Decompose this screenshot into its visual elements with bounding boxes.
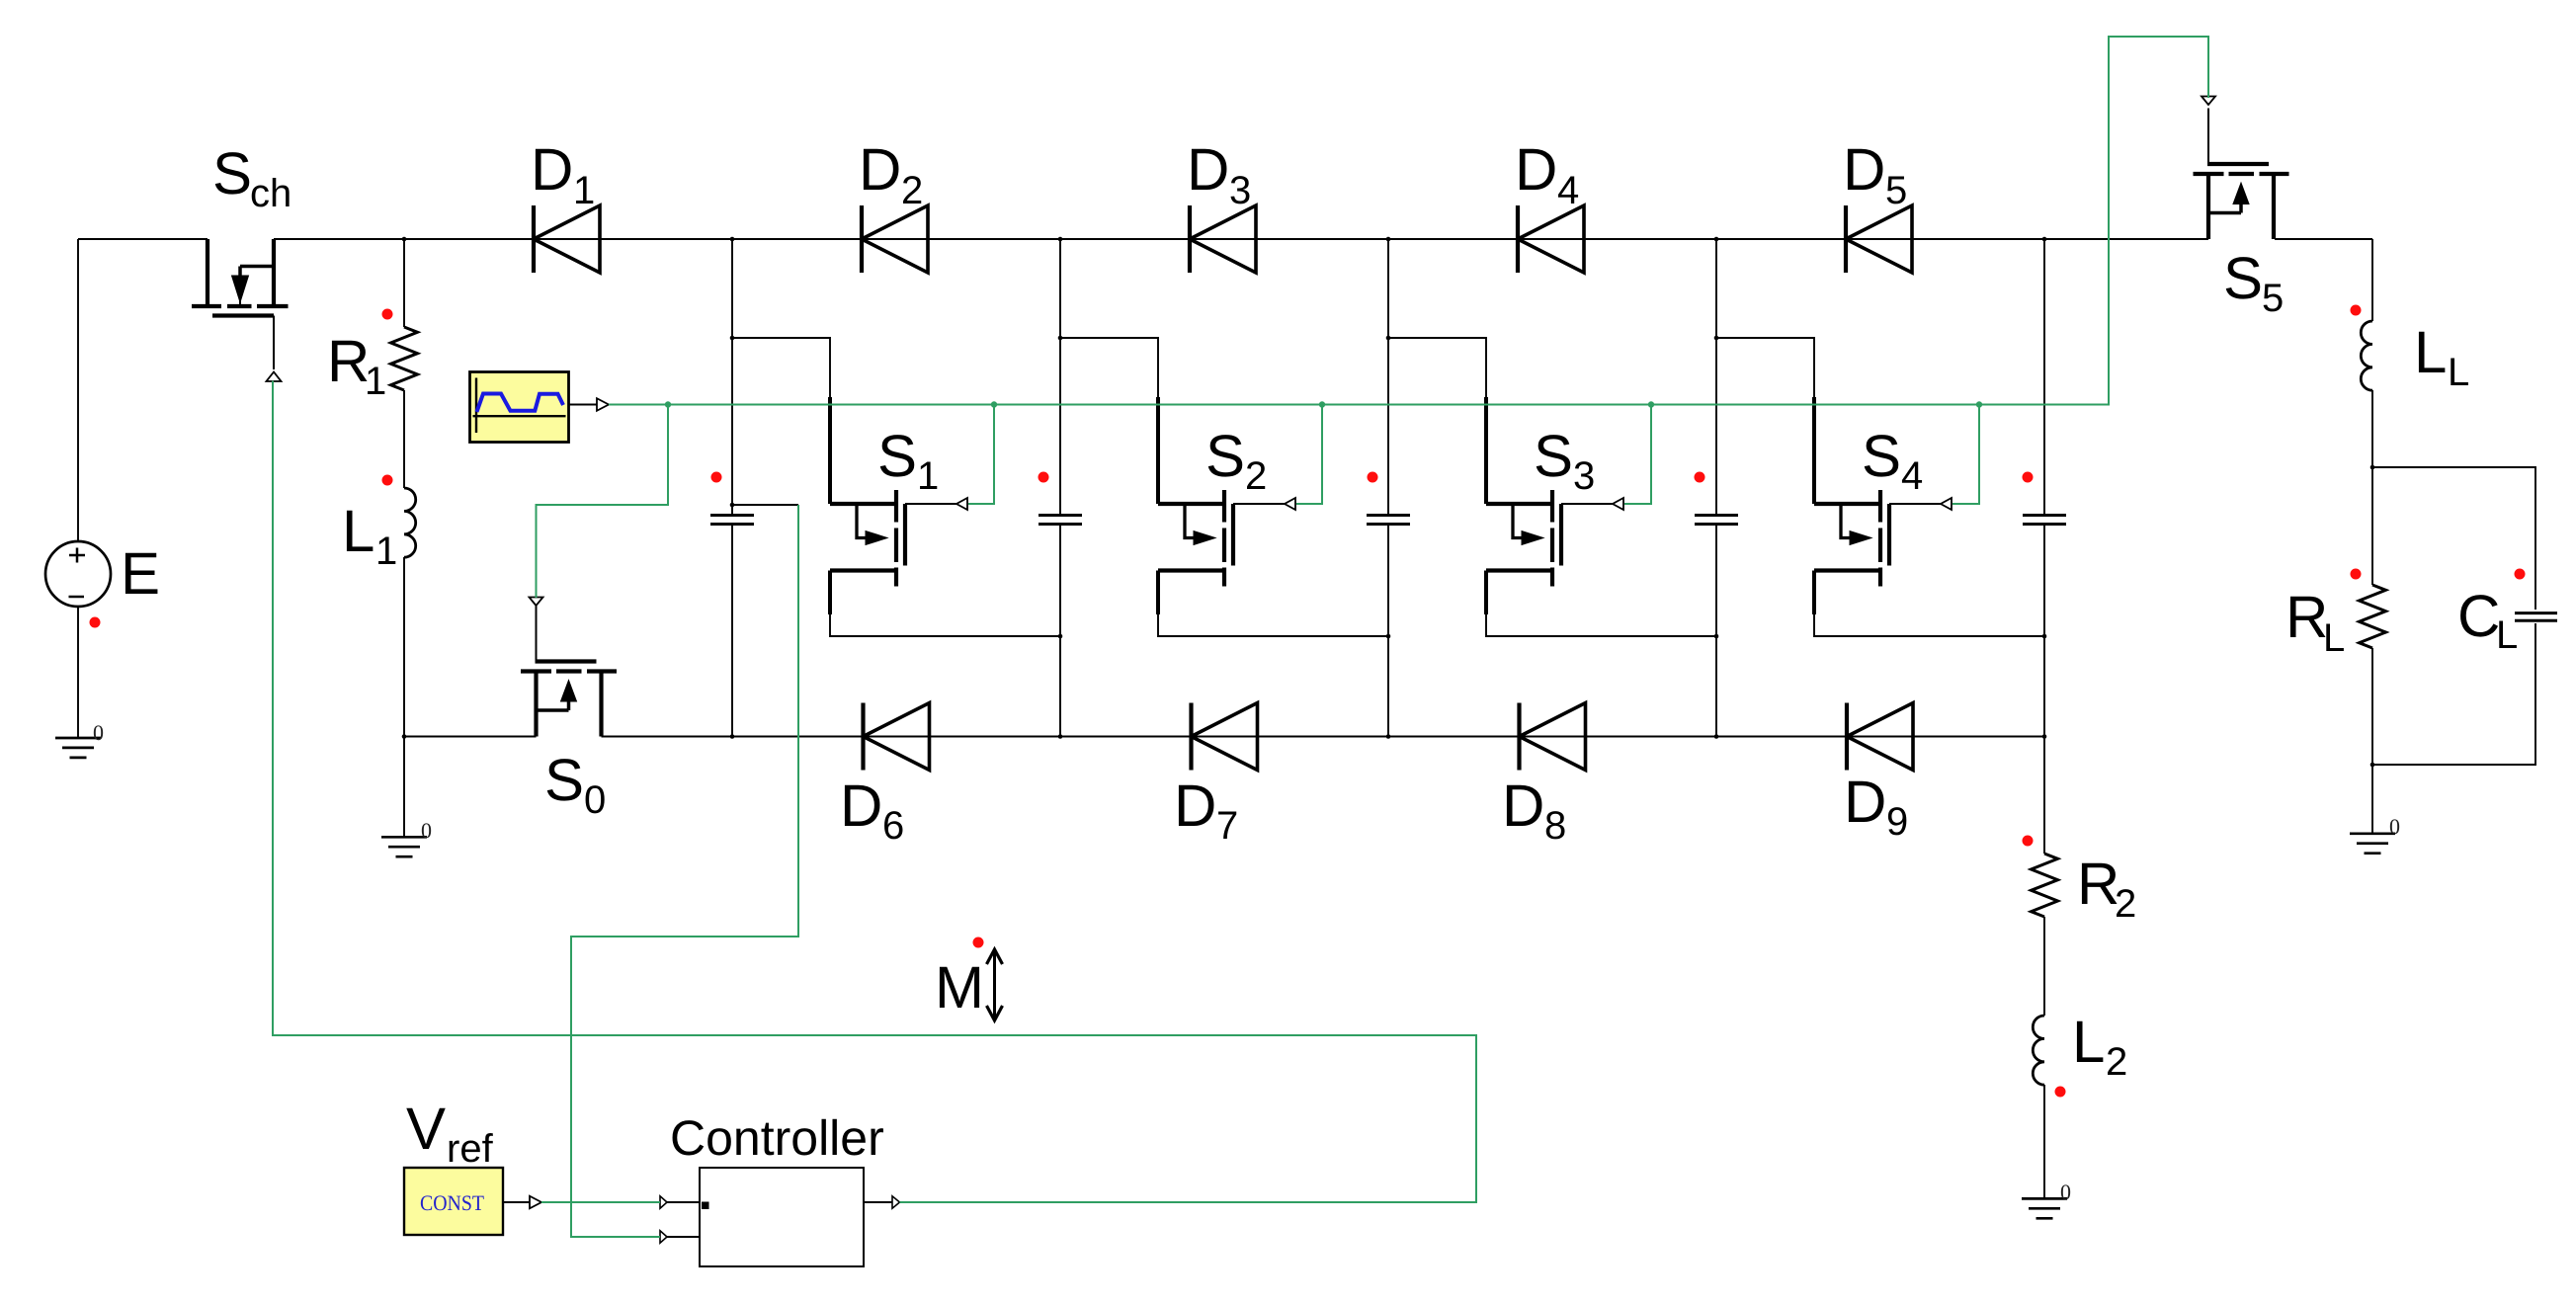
wire R1 to L1 bbox=[403, 390, 405, 488]
wire Vref to controller input 1 bbox=[541, 1201, 660, 1203]
wire bottom bus left to S0 drain bbox=[404, 736, 537, 738]
inductor L2 bbox=[2033, 1016, 2044, 1085]
junction node S1 source return bbox=[1058, 634, 1063, 639]
diode D1 bbox=[534, 205, 600, 273]
wire rail 1 lower bbox=[731, 525, 733, 737]
probe dot at C3 bbox=[1368, 472, 1378, 483]
svg-text:D: D bbox=[1502, 773, 1544, 839]
diode D9 bbox=[1847, 703, 1913, 771]
svg-text:S: S bbox=[1205, 423, 1245, 489]
gate port arrow of S5 bbox=[2202, 97, 2215, 106]
wire C1 sense stub bbox=[732, 504, 798, 506]
wire L1 to bottom bus bbox=[403, 557, 405, 737]
wire top bus left segment E to S_ch drain bbox=[78, 238, 208, 240]
resistor R2 bbox=[2032, 854, 2058, 917]
probe dot at C4 bbox=[1695, 472, 1705, 483]
svg-text:2: 2 bbox=[1245, 454, 1267, 498]
wire LL to node junction bbox=[2371, 390, 2373, 467]
probe dot above LL bbox=[2351, 305, 2362, 316]
ground 0 below E bbox=[55, 738, 101, 758]
wire rail 2 upper bbox=[1059, 239, 1061, 514]
svg-text:S: S bbox=[544, 747, 584, 813]
junction node bottom bus rail 3 bbox=[1386, 734, 1391, 739]
junction node load bottom bbox=[2370, 763, 2375, 768]
svg-text:2: 2 bbox=[901, 169, 923, 212]
svg-text:8: 8 bbox=[1544, 804, 1566, 848]
wire Vref output bbox=[502, 1201, 530, 1203]
green junction node S0 tap bbox=[665, 401, 671, 407]
green junction node S2 tap bbox=[1319, 401, 1325, 407]
svg-text:L: L bbox=[2448, 351, 2469, 394]
output port arrow of controller bbox=[892, 1196, 900, 1208]
svg-text:1: 1 bbox=[573, 169, 595, 212]
svg-text:D: D bbox=[1187, 136, 1229, 203]
junction node S3 drain tap bbox=[1386, 336, 1391, 341]
wire lower node to load ground bbox=[2371, 765, 2373, 834]
wire top bus right segment S5 source to load corner bbox=[2275, 238, 2372, 240]
junction node bottom bus rail 1 bbox=[730, 734, 735, 739]
svg-text:7: 7 bbox=[1216, 804, 1238, 848]
svg-text:S: S bbox=[212, 140, 252, 206]
transistor S0 bbox=[521, 606, 617, 737]
wire CL bottom branch bbox=[2372, 623, 2535, 765]
svg-text:C: C bbox=[2457, 583, 2500, 649]
voltage source E bbox=[45, 541, 111, 607]
svg-text:0: 0 bbox=[421, 818, 432, 843]
wire rail 4 lower bbox=[1715, 525, 1717, 737]
square-wave gating source block bbox=[470, 372, 569, 443]
gate port arrow of S2 bbox=[1285, 498, 1295, 510]
wire R1 top connection bbox=[403, 239, 405, 327]
wire rail 5 lower bbox=[2043, 525, 2045, 737]
wire S4 drain tap from rail 4 bbox=[1716, 338, 1814, 399]
junction node S2 drain tap bbox=[1058, 336, 1063, 341]
wire controller output to S_ch gate bbox=[273, 381, 1476, 1203]
transistor S5 bbox=[2194, 109, 2289, 240]
diode D6 bbox=[864, 703, 930, 771]
svg-text:L: L bbox=[2323, 616, 2345, 660]
svg-text:D: D bbox=[840, 773, 882, 839]
wire S4 source return to rail 5 bbox=[1814, 614, 2044, 636]
svg-text:R: R bbox=[327, 328, 370, 394]
svg-text:2: 2 bbox=[2115, 882, 2136, 926]
wire green tap to S1 gate bbox=[968, 405, 994, 505]
wire pulse source output bbox=[568, 404, 597, 406]
svg-text:D: D bbox=[859, 136, 901, 203]
wire rail 4 upper bbox=[1715, 239, 1717, 514]
junction node top bus rail 2 bbox=[1058, 237, 1063, 242]
svg-text:D: D bbox=[1515, 136, 1557, 203]
green junction node S3 tap bbox=[1648, 401, 1654, 407]
probe dot above M bbox=[973, 937, 984, 948]
capacitor C4 on rail 4 bbox=[1695, 516, 1738, 525]
svg-text:L: L bbox=[2414, 319, 2447, 385]
svg-text:E: E bbox=[121, 540, 160, 607]
svg-text:5: 5 bbox=[2262, 277, 2284, 320]
ground 0 below bottom bus left bbox=[381, 837, 427, 856]
wire E source branch top bbox=[77, 239, 79, 542]
gate port arrow of S0 bbox=[530, 598, 543, 607]
junction node top bus rail 4 bbox=[1714, 237, 1719, 242]
wire rail 1 upper bbox=[731, 239, 733, 514]
svg-text:V: V bbox=[406, 1096, 446, 1162]
svg-text:R: R bbox=[2077, 851, 2119, 917]
svg-text:0: 0 bbox=[2060, 1180, 2071, 1204]
wire rail 2 lower bbox=[1059, 525, 1061, 737]
gate port arrow of S3 bbox=[1613, 498, 1623, 510]
svg-text:5: 5 bbox=[1885, 169, 1907, 212]
gate port arrow of S4 bbox=[1941, 498, 1952, 510]
probe dot above RL bbox=[2351, 569, 2362, 580]
svg-text:S: S bbox=[877, 423, 917, 489]
diode D8 bbox=[1520, 703, 1586, 771]
wire RL bottom to lower node bbox=[2371, 648, 2373, 765]
junction node bottom bus rail 2 bbox=[1058, 734, 1063, 739]
wire top bus main segment S_ch source to S5 drain bbox=[274, 238, 2208, 240]
svg-text:4: 4 bbox=[1557, 169, 1579, 212]
input port arrow 2 of controller bbox=[660, 1231, 667, 1243]
svg-text:D: D bbox=[1174, 773, 1216, 839]
junction node top bus at R1 branch bbox=[402, 237, 407, 242]
gate port arrow of S1 bbox=[956, 498, 967, 510]
junction node bottom bus rail 4 bbox=[1714, 734, 1719, 739]
svg-text:1: 1 bbox=[375, 530, 397, 573]
ground 0 below RL CL bbox=[2350, 834, 2395, 854]
green junction node S4 tap bbox=[1976, 401, 1982, 407]
svg-text:R: R bbox=[2285, 584, 2328, 650]
gate port arrow of S_ch bbox=[267, 372, 282, 382]
svg-text:0: 0 bbox=[584, 778, 606, 822]
wire load branch S5 source down to LL bbox=[2371, 239, 2373, 321]
probe dot above R2 bbox=[2023, 836, 2034, 847]
probe dot above R1 bbox=[382, 309, 393, 320]
svg-text:0: 0 bbox=[2389, 814, 2400, 839]
wire controller input 1 bbox=[667, 1201, 700, 1203]
wire green tap to S4 gate bbox=[1953, 405, 1979, 505]
resistor R1 bbox=[391, 327, 418, 390]
wire S1 drain tap from rail 1 bbox=[732, 338, 830, 399]
probe dot above L1 bbox=[382, 475, 393, 486]
wire rail 5 upper bbox=[2043, 239, 2045, 514]
wire CL top branch bbox=[2372, 467, 2535, 610]
svg-text:3: 3 bbox=[1229, 169, 1251, 212]
svg-text:S: S bbox=[2223, 245, 2263, 311]
wire S2 drain tap from rail 2 bbox=[1060, 338, 1158, 399]
measurement arrow M bbox=[987, 949, 1003, 1020]
svg-text:D: D bbox=[1843, 136, 1885, 203]
wire green tap to S2 gate bbox=[1296, 405, 1322, 505]
inductor LL bbox=[2361, 321, 2372, 390]
transistor S_ch bbox=[192, 239, 289, 369]
svg-text:L: L bbox=[2072, 1009, 2105, 1075]
diode D2 bbox=[862, 205, 928, 273]
capacitor C5 on rail 5 bbox=[2023, 516, 2066, 525]
svg-text:6: 6 bbox=[882, 804, 904, 848]
svg-text:D: D bbox=[1844, 769, 1886, 835]
junction node top bus rail 5 bbox=[2042, 237, 2047, 242]
svg-text:L: L bbox=[2496, 613, 2518, 657]
diode D7 bbox=[1192, 703, 1258, 771]
junction node bottom bus left bbox=[402, 734, 407, 739]
svg-text:D: D bbox=[531, 136, 573, 203]
wire rail 3 lower bbox=[1387, 525, 1389, 737]
transistor S2 bbox=[1158, 397, 1285, 614]
wire bottom bus main S0 source to R2 rail bbox=[602, 736, 2045, 738]
svg-text:L: L bbox=[342, 498, 374, 564]
svg-text:9: 9 bbox=[1886, 800, 1908, 844]
constant block Vref bbox=[404, 1168, 503, 1235]
capacitor C3 on rail 3 bbox=[1367, 516, 1410, 525]
probe dot at C1 bbox=[711, 472, 722, 483]
wire S3 drain tap from rail 3 bbox=[1388, 338, 1486, 399]
wire L2 to ground bbox=[2043, 1085, 2045, 1198]
svg-text:Controller: Controller bbox=[670, 1110, 884, 1166]
svg-text:S: S bbox=[1534, 423, 1573, 489]
inductor L1 bbox=[404, 488, 416, 557]
wire R2 to L2 bbox=[2043, 917, 2045, 1016]
transistor S1 bbox=[830, 397, 956, 614]
wire controller input 2 bbox=[667, 1236, 700, 1238]
wire gating bus main green line bbox=[609, 37, 2208, 405]
svg-text:1: 1 bbox=[365, 360, 386, 403]
probe dot below E bbox=[90, 617, 101, 628]
wire bottom bus left stub to ground bbox=[403, 737, 405, 838]
junction node top bus rail 3 bbox=[1386, 237, 1391, 242]
resistor RL bbox=[2360, 585, 2386, 648]
junction node S2 source return bbox=[1386, 634, 1391, 639]
wire node to RL top bbox=[2371, 467, 2373, 585]
probe dot above CL bbox=[2515, 569, 2526, 580]
green junction node S1 tap bbox=[991, 401, 997, 407]
wire green tap to S0 gate bbox=[537, 405, 669, 599]
junction node C1 sense stub bbox=[730, 503, 735, 508]
diode D5 bbox=[1846, 205, 1912, 273]
svg-text:CONST: CONST bbox=[420, 1190, 485, 1215]
output port arrow of Vref bbox=[530, 1196, 541, 1209]
controller subcircuit box bbox=[700, 1168, 864, 1266]
diode D4 bbox=[1518, 205, 1584, 273]
capacitor C2 on rail 2 bbox=[1039, 516, 1082, 525]
wire green tap to S3 gate bbox=[1624, 405, 1651, 505]
svg-text:S: S bbox=[1862, 423, 1901, 489]
svg-text:4: 4 bbox=[1901, 454, 1923, 498]
junction node S4 drain tap bbox=[1714, 336, 1719, 341]
ground 0 below L2 bbox=[2022, 1198, 2067, 1218]
transistor S3 bbox=[1486, 397, 1613, 614]
junction node load top bbox=[2370, 465, 2375, 470]
diode D3 bbox=[1190, 205, 1256, 273]
svg-text:M: M bbox=[935, 954, 984, 1020]
wire S2 source return to rail 3 bbox=[1158, 614, 1388, 636]
svg-text:0: 0 bbox=[93, 720, 104, 745]
junction node S4 source return bbox=[2042, 634, 2047, 639]
junction node S1 drain tap bbox=[730, 336, 735, 341]
junction node S3 source return bbox=[1714, 634, 1719, 639]
svg-text:1: 1 bbox=[917, 454, 939, 498]
wire controller output bbox=[864, 1201, 892, 1203]
wire S3 source return to rail 4 bbox=[1486, 614, 1716, 636]
wire rail 3 upper bbox=[1387, 239, 1389, 514]
input port arrow 1 of controller bbox=[660, 1196, 667, 1208]
transistor S4 bbox=[1814, 397, 1941, 614]
capacitor CL bbox=[2515, 613, 2557, 621]
svg-text:2: 2 bbox=[2106, 1040, 2127, 1084]
probe dot below L2 bbox=[2055, 1087, 2066, 1098]
junction node bottom bus rail 5 bbox=[2042, 734, 2047, 739]
wire E source branch bottom to ground bbox=[77, 607, 79, 739]
svg-text:ch: ch bbox=[250, 172, 291, 215]
wire rail 5 down to R2 bbox=[2043, 737, 2045, 855]
svg-text:3: 3 bbox=[1573, 454, 1595, 498]
wire feedback sense from C1 to controller input 2 bbox=[571, 505, 798, 1237]
junction node top bus rail 1 bbox=[730, 237, 735, 242]
capacitor C1 on rail 1 bbox=[710, 516, 754, 525]
probe dot at C5 bbox=[2023, 472, 2034, 483]
svg-text:ref: ref bbox=[447, 1127, 494, 1171]
output port arrow of gating source bbox=[597, 398, 609, 411]
probe dot at C2 bbox=[1039, 472, 1049, 483]
wire S1 source return to rail 2 bbox=[830, 614, 1060, 636]
